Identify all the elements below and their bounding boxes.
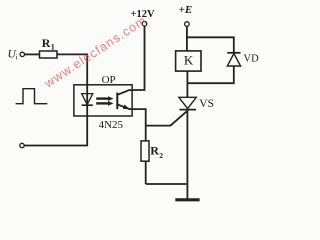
phototransistor collector lead: [117, 90, 132, 95]
ground: [175, 198, 199, 201]
supply +E terminal: [185, 22, 190, 27]
diode VD cathode bar: [227, 52, 240, 54]
svg-text:OP: OP: [102, 74, 116, 86]
svg-text:VD: VD: [244, 54, 260, 65]
relay coil K box: [176, 51, 201, 71]
svg-text:+E: +E: [179, 4, 193, 16]
svg-text:i: i: [16, 54, 18, 62]
svg-text:K: K: [184, 53, 194, 68]
wire node to thyristor gate: [146, 111, 187, 125]
resistor R2: [141, 141, 149, 161]
pulse waveform symbol: [16, 89, 48, 104]
resistor R1: [40, 51, 58, 58]
wire +E down to relay K: [186, 26, 188, 51]
light arrow upper: [96, 97, 108, 99]
phototransistor emitter lead: [117, 104, 132, 109]
optocoupler OP box: [74, 85, 132, 116]
wire K bottom to VS anode junction: [186, 71, 188, 83]
diode VD triangle: [227, 54, 240, 67]
input terminal Ui: [20, 52, 24, 56]
light arrow lower: [96, 102, 108, 104]
optocoupler LED cathode bar: [82, 104, 93, 106]
phototransistor emitter arrowhead: [123, 105, 130, 110]
wire node down to R2: [145, 126, 147, 141]
wire bottom rail to cathode line: [146, 183, 188, 185]
thyristor VS cathode line to ground: [186, 110, 188, 200]
svg-text:4N25: 4N25: [99, 119, 124, 131]
svg-text:2: 2: [159, 151, 163, 160]
wire +E branch to diode VD cathode: [187, 37, 233, 52]
thyristor VS cathode bar: [179, 109, 196, 111]
phototransistor base bar: [116, 93, 118, 110]
svg-text:1: 1: [51, 43, 55, 52]
thyristor VS triangle: [179, 97, 196, 108]
wire return terminal to optocoupler LED cathode: [24, 116, 87, 146]
optocoupler LED lead through box: [86, 85, 88, 116]
wire +12V to phototransistor collector: [132, 26, 145, 90]
svg-text:R: R: [42, 36, 51, 50]
supply +12V terminal: [142, 21, 147, 26]
wire R2 to bottom rail: [145, 161, 147, 184]
svg-text:R: R: [150, 144, 159, 158]
input return terminal: [20, 143, 24, 147]
wire R1 to optocoupler LED anode: [57, 54, 87, 85]
wire phototransistor emitter down to node: [132, 109, 146, 126]
optocoupler LED triangle: [82, 94, 93, 105]
svg-text:VS: VS: [199, 98, 214, 110]
thyristor VS anode line: [186, 83, 188, 97]
wire VD anode to bottom branch: [187, 66, 233, 83]
wire terminal to R1: [25, 53, 40, 55]
